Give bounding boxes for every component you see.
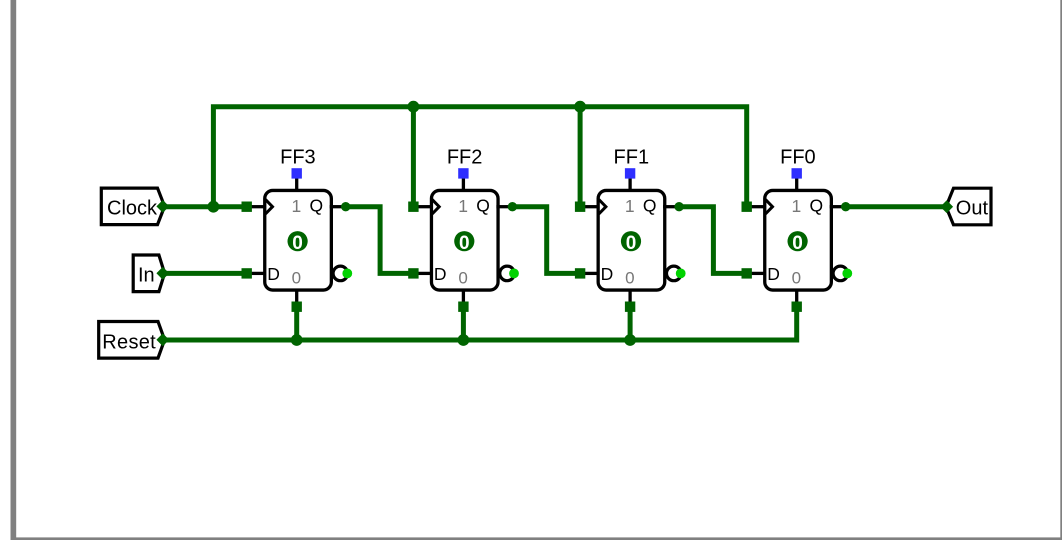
wire FF3 Q to FF2 D [347, 207, 414, 274]
FF3 clear input connection (bottom) [292, 302, 302, 312]
svg-text:1: 1 [792, 196, 802, 216]
FF0 Q output value dot (0) [841, 202, 850, 211]
input pin In [133, 255, 169, 292]
FF2 enable pin unconnected (blue) [458, 168, 468, 178]
svg-text:1: 1 [458, 196, 468, 216]
svg-text:0: 0 [792, 268, 801, 287]
FF1 clear input connection (bottom) [625, 302, 635, 312]
wire clock bus drop to FF2 clock input [411, 107, 416, 207]
FF3 D input connection [242, 268, 252, 278]
svg-text:1: 1 [292, 196, 302, 216]
FF1 clock wedge [599, 199, 606, 214]
FF2 state indicator 0 [454, 231, 474, 254]
junction clock bus at FF2 drop [408, 101, 420, 113]
FF2 Q output value dot (0) [508, 202, 517, 211]
FF3 clock pin stub [251, 205, 264, 208]
FF3 D pin stub [251, 272, 264, 275]
FF2 clock wedge [432, 199, 439, 214]
svg-text:D: D [267, 264, 280, 284]
svg-text:0: 0 [459, 233, 470, 254]
FF0 D input connection [742, 268, 752, 278]
FF2 clear input connection (bottom) [458, 302, 468, 312]
svg-text:D: D [601, 264, 614, 284]
svg-text:0: 0 [292, 268, 301, 287]
FF2 inverted output bubble [500, 266, 515, 281]
FF2 inverted output value dot (1) [509, 269, 519, 279]
wire clock feedback bus: up from clock net, across top, down to FF0 clock [213, 107, 746, 207]
wire reset net tap up to FF3 clear input [294, 307, 299, 340]
FF2 enable pin stub (top) [462, 177, 465, 192]
FF3 clock input connection [242, 202, 252, 212]
svg-text:FF0: FF0 [780, 147, 816, 169]
FF3 clear pin stub (bottom) [295, 290, 298, 303]
FF3 inverted output bubble [333, 266, 348, 281]
svg-text:FF3: FF3 [280, 147, 316, 169]
junction clock net at feedback tap [208, 201, 220, 213]
FF1 enable pin unconnected (blue) [625, 168, 635, 178]
FF2 clear pin stub (bottom) [462, 290, 465, 303]
FF0 clear pin stub (bottom) [795, 290, 798, 303]
svg-text:D: D [767, 264, 780, 284]
FF2 D input connection [408, 268, 418, 278]
FF2 D pin stub [417, 272, 430, 275]
FF1 body [598, 190, 665, 290]
FF0 enable pin unconnected (blue) [792, 168, 802, 178]
svg-text:D: D [434, 264, 447, 284]
input pin Clock [101, 188, 169, 225]
output pin Out [940, 188, 991, 225]
wire FF0 Q to Out pin [847, 204, 947, 209]
wire clock bus drop to FF1 clock input [578, 107, 583, 207]
FF3 clock wedge [265, 199, 272, 214]
FF0 inverted output value dot (1) [842, 269, 852, 279]
svg-text:In: In [138, 265, 155, 287]
wire Clock pin to FF3 clock input [163, 204, 246, 209]
wire FF1 Q to FF0 D [680, 207, 747, 274]
svg-text:0: 0 [626, 233, 637, 254]
FF2 clock input connection [408, 202, 418, 212]
D flip-flop FF2 [408, 147, 519, 312]
junction clock bus at FF1 drop [574, 101, 586, 113]
junction reset net at FF1 tap [624, 334, 636, 346]
svg-text:Reset: Reset [102, 332, 156, 354]
wire reset net tap up to FF2 clear input [461, 307, 466, 340]
FF3 Q output value dot (0) [341, 202, 350, 211]
wire Reset pin along reset net to FF0 clear input [163, 307, 796, 340]
D flip-flop FF1 [575, 147, 686, 312]
FF2 Q pin stub [496, 205, 508, 208]
FF3 body [265, 190, 332, 290]
svg-text:Q: Q [310, 196, 324, 216]
input pin Reset [99, 322, 170, 359]
FF2 clock pin stub [417, 205, 430, 208]
FF3 state indicator 0 [288, 231, 308, 254]
FF1 inverted output value dot (1) [676, 269, 686, 279]
FF0 clear input connection (bottom) [792, 302, 802, 312]
FF1 D pin stub [584, 272, 597, 275]
FF3 enable pin stub (top) [295, 177, 298, 192]
FF1 Q pin stub [663, 205, 675, 208]
svg-text:Q: Q [810, 196, 824, 216]
FF0 Q pin stub [830, 205, 842, 208]
FF1 D input connection [575, 268, 585, 278]
svg-text:0: 0 [458, 268, 467, 287]
D flip-flop FF3 [242, 147, 353, 312]
FF0 clock input connection [742, 202, 752, 212]
svg-text:Out: Out [956, 198, 989, 220]
svg-text:0: 0 [792, 233, 803, 254]
wire FF2 Q to FF1 D [513, 207, 580, 274]
svg-text:0: 0 [292, 233, 303, 254]
FF1 Q output value dot (0) [674, 202, 683, 211]
FF3 inverted output value dot (1) [342, 269, 352, 279]
FF0 D pin stub [751, 272, 764, 275]
svg-text:Q: Q [643, 196, 657, 216]
svg-text:FF1: FF1 [614, 147, 650, 169]
FF1 enable pin stub (top) [628, 177, 631, 192]
FF0 state indicator 0 [788, 231, 808, 254]
svg-text:0: 0 [625, 268, 634, 287]
FF0 clock pin stub [751, 205, 764, 208]
FF1 clock pin stub [584, 205, 597, 208]
FF0 inverted output bubble [833, 266, 848, 281]
svg-text:Clock: Clock [107, 198, 158, 220]
FF0 enable pin stub (top) [795, 177, 798, 192]
wire In pin to FF3 D input [163, 271, 246, 276]
FF1 clock input connection [575, 202, 585, 212]
FF3 Q pin stub [330, 205, 342, 208]
FF3 enable pin unconnected (blue) [292, 168, 302, 178]
wire reset net tap up to FF1 clear input [628, 307, 633, 340]
FF1 state indicator 0 [621, 231, 641, 254]
FF1 clear pin stub (bottom) [628, 290, 631, 303]
D flip-flop FF0 [742, 147, 853, 312]
svg-text:FF2: FF2 [447, 147, 483, 169]
junction reset net at FF2 tap [458, 334, 470, 346]
junction reset net at FF3 tap [291, 334, 303, 346]
FF0 body [765, 190, 832, 290]
FF0 clock wedge [765, 199, 772, 214]
svg-text:Q: Q [476, 196, 490, 216]
FF2 body [431, 190, 498, 290]
svg-text:1: 1 [625, 196, 635, 216]
FF1 inverted output bubble [667, 266, 682, 281]
